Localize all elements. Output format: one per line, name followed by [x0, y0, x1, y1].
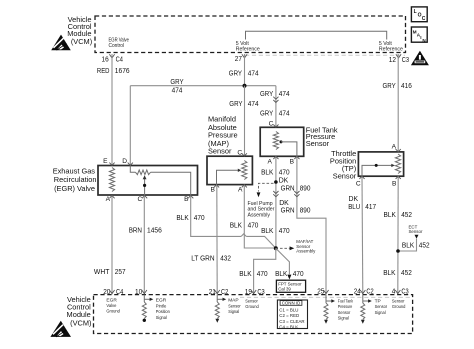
svg-text:D: D: [122, 158, 127, 165]
svg-text:Control: Control: [109, 43, 125, 49]
net: 5 Volt Reference (right): [379, 41, 403, 53]
EGR pin A: [106, 196, 115, 203]
FTP sensor label: [306, 125, 338, 148]
net: TP Sensor Signal (pin 24 internal): [363, 295, 388, 316]
svg-text:417: 417: [365, 202, 376, 211]
svg-text:BLK: BLK: [402, 241, 414, 250]
TP sensor label: [330, 149, 357, 181]
svg-text:1456: 1456: [147, 225, 162, 234]
svg-text:24: 24: [354, 288, 361, 295]
svg-text:CONN ID: CONN ID: [282, 301, 301, 306]
wire BLK 470 (FTP A down to junction): [261, 157, 289, 249]
FTP pin C: [269, 120, 279, 127]
svg-text:GRN: GRN: [281, 184, 295, 193]
svg-text:L: L: [414, 9, 417, 15]
svg-text:Fuel Tank: Fuel Tank: [338, 298, 354, 304]
resistor (pin 25 internal pull): [324, 303, 328, 324]
svg-text:EGR: EGR: [156, 298, 167, 304]
svg-text:470: 470: [194, 213, 205, 222]
svg-text:BLU: BLU: [348, 202, 360, 211]
svg-text:Sensor: Sensor: [333, 172, 357, 181]
svg-text:C3: C3: [402, 57, 409, 64]
net: EGR Valve Ground: [106, 298, 120, 315]
svg-text:(VCM): (VCM): [71, 37, 92, 46]
TP pin A: [392, 144, 401, 152]
wire BLK 452 (TP B to pin 4): [383, 177, 412, 295]
svg-text:Pintle: Pintle: [156, 303, 167, 309]
EGR pin C: [138, 196, 148, 203]
net: Sensor Ground (pin 4): [392, 298, 406, 310]
svg-text:C1 = BLU: C1 = BLU: [279, 308, 298, 313]
svg-text:GRY: GRY: [260, 108, 273, 117]
svg-text:C2 = RED: C2 = RED: [279, 313, 299, 318]
svg-text:890: 890: [300, 206, 311, 215]
MAP sensor box: [207, 156, 252, 184]
EGR valve label: [53, 166, 97, 192]
svg-text:BLK: BLK: [384, 210, 396, 219]
svg-text:C4 = BLK: C4 = BLK: [279, 324, 298, 329]
svg-text:LT GRN: LT GRN: [191, 253, 214, 262]
svg-text:C: C: [269, 120, 274, 127]
svg-text:Valve: Valve: [106, 303, 116, 309]
svg-text:470: 470: [248, 220, 259, 229]
svg-text:BLK: BLK: [239, 269, 251, 278]
wire GRY 474 (to Fuel Tank Pressure pin C): [260, 86, 290, 128]
svg-text:B: B: [290, 159, 295, 166]
wire GRY 474 horizontal bus: [130, 77, 276, 94]
FTP pin B: [290, 157, 300, 166]
net: Fuel Tank Pressure Sensor Signal (pin 25 internal): [326, 295, 353, 322]
svg-text:(EGR) Valve: (EGR) Valve: [54, 184, 95, 193]
VCM top module dashed box: [95, 16, 406, 55]
svg-text:C4: C4: [116, 56, 123, 63]
svg-text:452: 452: [401, 268, 412, 277]
svg-text:4: 4: [392, 288, 396, 295]
resistor (pin 10 internal pull): [142, 302, 146, 322]
svg-text:20: 20: [103, 289, 110, 296]
svg-text:416: 416: [401, 81, 412, 90]
svg-text:GRY: GRY: [260, 89, 273, 98]
svg-text:EGR: EGR: [106, 298, 117, 304]
junction node (GRY bus / pin 27): [243, 84, 247, 88]
svg-text:C: C: [237, 149, 242, 156]
TP internal resistor: [395, 154, 400, 174]
svg-text:C3 = CLEAR: C3 = CLEAR: [279, 319, 304, 324]
svg-text:BLK: BLK: [383, 268, 395, 277]
pin 20 C4: [103, 289, 123, 296]
svg-text:TP: TP: [375, 298, 381, 304]
FTP pin A: [267, 157, 278, 166]
svg-text:Pressure: Pressure: [338, 304, 353, 310]
5 volt reference internal bracket: [246, 31, 387, 39]
svg-text:474: 474: [279, 108, 290, 117]
svg-text:E: E: [103, 158, 108, 165]
svg-text:BLK: BLK: [261, 167, 273, 176]
dashed lead to Fuel Pump and Sender Assembly: [248, 183, 275, 218]
MAP sensor label: [208, 114, 238, 155]
wire BLK 470 (MAP A to ground junction): [230, 185, 276, 248]
EGR valve box: [98, 166, 198, 196]
MAP internal resistor: [242, 161, 247, 180]
node: fuel pump splice: [274, 180, 278, 184]
FTP internal resistor: [273, 132, 278, 150]
EGR pin E: [103, 158, 115, 165]
svg-text:10: 10: [135, 289, 142, 296]
MAP pin A: [238, 185, 247, 194]
wire DK BLU 417 (TP C to pin 24): [348, 177, 376, 295]
FPT Sensor Cal 39 box: [276, 280, 305, 292]
LOC reference box (top right): [411, 7, 427, 22]
ESD warning triangle (bottom left): [50, 321, 71, 337]
svg-text:452: 452: [419, 241, 430, 250]
pin 19 C3: [245, 289, 265, 296]
wire RED 1676 (pin 16 to EGR pin E): [97, 54, 130, 166]
pin 4 C3: [392, 288, 409, 295]
svg-text:27: 27: [235, 56, 242, 63]
wire BLK 470 (junction to FPT sensor cal): [275, 248, 303, 279]
svg-text:BLK: BLK: [275, 269, 287, 278]
net: EGR Pintle Position Signal (pin 10 internal): [144, 295, 170, 321]
svg-text:BLK: BLK: [230, 220, 242, 229]
ESD warning triangle (top left): [51, 35, 71, 51]
node: ECT splice on BLK 452: [396, 249, 400, 253]
wire GRY 474 (to MAP pin C): [229, 86, 258, 157]
svg-text:Sensor: Sensor: [375, 304, 388, 310]
svg-text:257: 257: [115, 267, 126, 276]
wire GRY 474 (pin 27 drop): [229, 54, 259, 86]
svg-text:890: 890: [300, 184, 311, 193]
svg-text:Sensor: Sensor: [208, 147, 232, 156]
svg-text:Sensor: Sensor: [306, 139, 330, 148]
svg-text:1676: 1676: [115, 66, 130, 75]
MAP pin B: [210, 185, 219, 194]
svg-text:16: 16: [102, 56, 109, 63]
svg-text:Sensor: Sensor: [409, 229, 423, 234]
svg-text:A: A: [106, 196, 111, 203]
EGR pin B: [184, 196, 193, 203]
svg-text:Signal: Signal: [156, 315, 167, 321]
svg-text:Position: Position: [156, 309, 170, 315]
svg-text:C4: C4: [116, 289, 123, 296]
svg-text:GRN: GRN: [281, 206, 295, 215]
svg-text:Signal: Signal: [228, 309, 239, 315]
MAP wiper arm: [217, 169, 242, 185]
EGR pintle resistor (internal): [130, 166, 190, 196]
svg-text:GRY: GRY: [383, 81, 396, 90]
svg-text:C: C: [138, 196, 143, 203]
svg-text:Ground: Ground: [106, 309, 120, 315]
svg-text:GRY: GRY: [229, 69, 242, 78]
wire EGR pin D riser: [129, 86, 131, 166]
net: EGR Valve Control label: [109, 37, 130, 49]
svg-text:Assembly: Assembly: [248, 212, 271, 218]
svg-text:Sensor: Sensor: [245, 298, 258, 304]
svg-text:Sensor: Sensor: [392, 298, 405, 304]
EGR pintle wiper: [143, 175, 147, 195]
wire BLK 470 (EGR B to ground junction): [176, 196, 275, 249]
svg-text:RED: RED: [97, 66, 110, 75]
svg-text:19: 19: [245, 289, 252, 296]
ESD warning triangle (right, at pin 12): [411, 51, 429, 65]
svg-text:474: 474: [248, 69, 259, 78]
svg-text:BRN: BRN: [129, 225, 142, 234]
svg-text:B: B: [210, 187, 215, 194]
svg-text:GRY: GRY: [229, 99, 242, 108]
svg-text:Recirculation: Recirculation: [54, 175, 97, 184]
svg-text:WHT: WHT: [94, 267, 110, 276]
EGR solenoid coil: [109, 168, 114, 192]
pin 10: [135, 289, 147, 296]
svg-text:Reference: Reference: [236, 47, 260, 53]
TP pin C: [356, 176, 365, 187]
pin 12 C3: [389, 54, 409, 64]
MAIN reference box (top right): [411, 27, 427, 43]
svg-text:I: I: [420, 35, 421, 40]
pin 27: [235, 54, 247, 63]
CONN ID legend box: [277, 300, 307, 329]
svg-text:474: 474: [279, 89, 290, 98]
svg-text:C2: C2: [221, 289, 228, 296]
svg-text:432: 432: [220, 253, 231, 262]
TP sensor box: [358, 152, 403, 176]
Fuel Tank Pressure sensor box: [260, 127, 304, 156]
svg-text:470: 470: [293, 269, 304, 278]
svg-text:C2: C2: [366, 288, 373, 295]
svg-text:470: 470: [279, 226, 290, 235]
svg-text:25: 25: [317, 288, 324, 295]
svg-text:B: B: [392, 181, 397, 188]
ECT Sensor stub: [398, 224, 430, 251]
pin 25: [317, 288, 328, 295]
svg-text:470: 470: [257, 269, 268, 278]
svg-text:BLK: BLK: [176, 213, 188, 222]
svg-text:MAP: MAP: [228, 298, 238, 304]
svg-text:A: A: [267, 159, 272, 166]
wire BLK 470 (junction to pin 19): [239, 248, 275, 294]
svg-text:Signal: Signal: [375, 310, 386, 316]
pin 24 C2: [354, 288, 374, 295]
wire WHT 257 (EGR A to pin 20): [94, 196, 126, 295]
pin 21 C2: [209, 289, 229, 296]
svg-text:Sensor: Sensor: [338, 310, 351, 316]
svg-text:Reference: Reference: [379, 47, 403, 53]
svg-text:C: C: [356, 181, 361, 188]
VCM bottom label: Vehicle Control Module (VCM): [67, 295, 92, 327]
svg-text:A: A: [238, 187, 243, 194]
wire DK GRN 890 (FTP B to pin 25): [279, 157, 326, 295]
TP pin B: [392, 176, 401, 187]
svg-text:12: 12: [389, 57, 396, 64]
svg-text:BLK: BLK: [261, 226, 273, 235]
net: Sensor Ground (pin 19): [245, 298, 259, 310]
svg-text:452: 452: [401, 210, 412, 219]
svg-text:C3: C3: [257, 289, 264, 296]
wire GRY 416 (pin 12 to TP pin A): [383, 54, 412, 152]
FTP wiper tap: [280, 140, 297, 156]
VCM bottom module dashed box: [94, 295, 413, 334]
svg-text:474: 474: [172, 86, 183, 95]
wire LT GRN 432 (MAP B to pin 21): [191, 185, 231, 294]
dashed lead to MAF/IAT Sensor Assembly: [280, 239, 316, 253]
svg-text:Ground: Ground: [245, 304, 259, 310]
TP wiper arm: [362, 164, 395, 177]
svg-text:Signal: Signal: [338, 316, 349, 322]
resistor (pin 21 internal pull): [215, 302, 219, 323]
svg-text:C: C: [422, 16, 426, 22]
EGR pin D: [122, 158, 133, 165]
VCM top label: Vehicle Control Module (VCM): [67, 15, 92, 46]
svg-text:Assembly: Assembly: [296, 248, 316, 253]
svg-text:474: 474: [248, 99, 259, 108]
svg-text:Sensor: Sensor: [228, 303, 241, 309]
MAP pin C: [237, 149, 246, 156]
svg-text:Ground: Ground: [392, 304, 406, 310]
pin 16 C4: [102, 54, 123, 63]
resistor (pin 24 internal pull): [361, 303, 365, 324]
wire BRN 1456 (EGR C to pin 10): [129, 196, 162, 295]
node: sensor ground junction: [274, 246, 278, 250]
svg-text:B: B: [184, 196, 189, 203]
net: 5 Volt Reference (left): [236, 41, 260, 53]
svg-text:C3: C3: [401, 288, 408, 295]
svg-text:Cal 39: Cal 39: [278, 287, 291, 292]
net: MAP Sensor Signal (pin 21 internal): [217, 295, 241, 316]
svg-text:(VCM): (VCM): [70, 318, 91, 327]
